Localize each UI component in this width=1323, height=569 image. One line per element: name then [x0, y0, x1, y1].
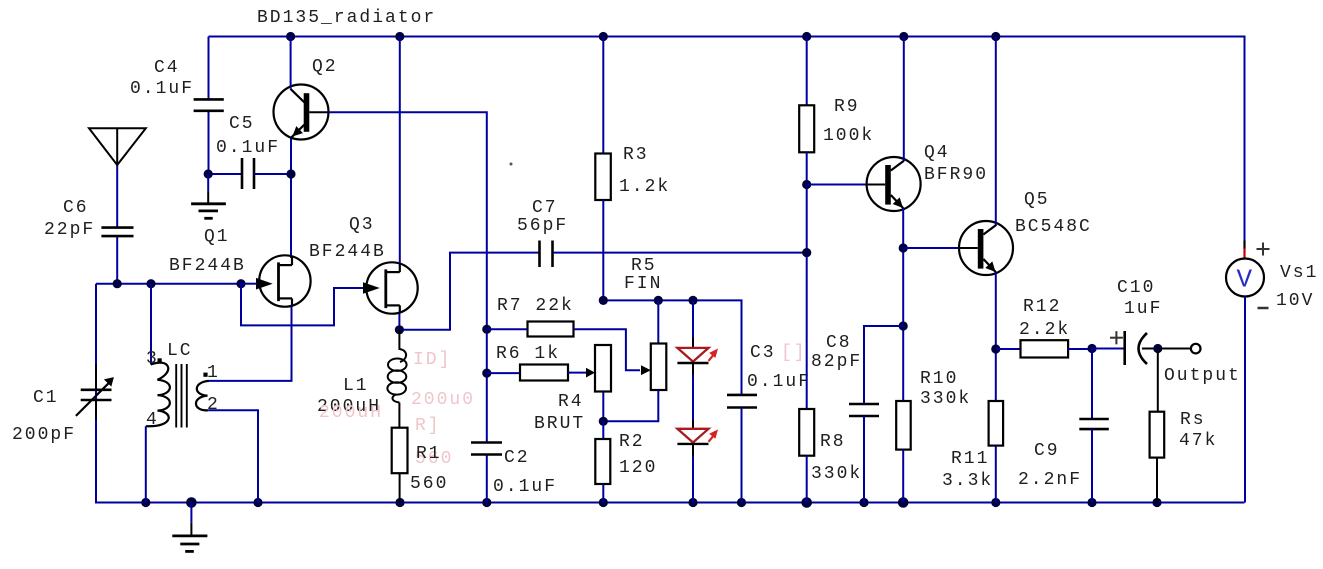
svg-text:3.3k: 3.3k — [942, 471, 993, 491]
svg-text:4: 4 — [146, 410, 159, 430]
capacitor C3 — [727, 395, 757, 503]
label Rs value — [1179, 410, 1217, 451]
stray speck — [510, 163, 513, 166]
label Q2 — [312, 57, 338, 77]
svg-text:C3: C3 — [750, 343, 776, 363]
voltage source Vs1 — [1226, 241, 1270, 503]
wire VCC top rail — [209, 37, 1245, 241]
label R4 BRUT — [534, 392, 585, 434]
svg-text:R8: R8 — [820, 432, 846, 452]
svg-text:200pF: 200pF — [12, 425, 76, 445]
node antenna net dots — [113, 279, 246, 288]
label R6 value — [496, 344, 560, 364]
svg-text:100k: 100k — [823, 126, 874, 146]
label R11 value — [942, 449, 993, 491]
transformer LC — [146, 284, 209, 503]
svg-text:Q4: Q4 — [924, 143, 950, 163]
resistor R7 — [487, 322, 640, 371]
node Q5 emitter dot — [991, 344, 1000, 353]
svg-text:R10: R10 — [920, 369, 958, 389]
label Output — [1164, 366, 1241, 386]
svg-text:C5: C5 — [229, 114, 255, 134]
wire Q3 source node to C7 — [399, 253, 539, 330]
node Q4 emitter dots — [899, 243, 908, 330]
svg-text:R9: R9 — [834, 97, 860, 117]
ghost label 200u0 — [411, 390, 475, 410]
svg-text:R5: R5 — [631, 256, 657, 276]
svg-text:56pF: 56pF — [517, 216, 568, 236]
label C9 value — [1018, 441, 1082, 490]
transistor Q3 — [363, 37, 418, 314]
wire LC pin4 lead — [145, 426, 147, 502]
svg-text:R6 1k: R6 1k — [496, 344, 560, 364]
LC core — [176, 364, 187, 428]
label R1 value — [410, 444, 448, 494]
svg-text:C2: C2 — [504, 448, 530, 468]
node Q2 base column dots — [482, 325, 491, 378]
svg-text:BF244B: BF244B — [169, 256, 246, 276]
label R5 FIN — [624, 256, 662, 294]
capacitor C5 — [242, 158, 254, 189]
wire LC pin2 to ground — [208, 410, 258, 502]
svg-text:Q5: Q5 — [1024, 190, 1050, 210]
svg-text:C6: C6 — [63, 198, 89, 218]
wire LC pin1 to Q1 source — [209, 307, 292, 381]
label C2 value — [493, 448, 557, 497]
pin 2 label — [207, 395, 220, 415]
svg-text:330k: 330k — [811, 464, 862, 484]
label R8 value — [811, 432, 862, 484]
svg-text:R12: R12 — [1023, 297, 1061, 317]
label R9 value — [823, 97, 874, 146]
svg-text:2: 2 — [207, 395, 220, 415]
svg-text:BFR90: BFR90 — [924, 165, 988, 185]
wire FIN bus — [603, 300, 741, 395]
label Q3 — [309, 215, 386, 262]
svg-text:R]: R] — [415, 416, 441, 436]
node C5 left dot — [204, 169, 213, 178]
svg-text:560: 560 — [410, 474, 448, 494]
node FIN bus dots — [599, 296, 698, 305]
output terminal — [1158, 344, 1201, 354]
svg-text:2.2nF: 2.2nF — [1018, 470, 1082, 490]
svg-text:R11: R11 — [951, 449, 989, 469]
svg-text:330k: 330k — [920, 389, 971, 409]
resistor R3 — [595, 37, 611, 301]
svg-text:FIN: FIN — [624, 274, 662, 294]
LED D1 — [677, 348, 718, 363]
svg-text:0.1uF: 0.1uF — [216, 138, 280, 158]
svg-text:22pF: 22pF — [44, 220, 95, 240]
ghost label ID] — [413, 350, 451, 370]
label R7 value — [497, 296, 574, 316]
node R9 column dots — [802, 180, 811, 257]
label C6 value — [44, 198, 95, 240]
node R2 top junction — [599, 417, 608, 426]
capacitor C2 — [471, 443, 502, 455]
svg-text:C10: C10 — [1117, 278, 1155, 298]
label L1 value — [317, 376, 381, 417]
ground (bottom center) — [172, 503, 207, 552]
capacitor C1 (variable) — [76, 364, 114, 420]
svg-text:1.2k: 1.2k — [619, 177, 670, 197]
wire antenna input net — [96, 165, 241, 284]
wire Q5 emitter column — [995, 273, 997, 402]
svg-text:1uF: 1uF — [1124, 299, 1162, 319]
node R12 right junction — [1087, 344, 1096, 353]
node C10 right junction — [1153, 344, 1162, 353]
svg-text:200uH: 200uH — [319, 403, 383, 423]
resistor R12 — [996, 340, 1092, 357]
wire ground bottom rail — [96, 284, 1245, 503]
svg-text:10V: 10V — [1276, 291, 1314, 311]
node C5 right dot — [286, 169, 295, 178]
resistor R11 — [989, 401, 1004, 503]
wire C7 right to R9 column — [553, 252, 807, 254]
node ground rail junction dots — [141, 497, 1161, 508]
ghost label 560 — [415, 449, 453, 469]
svg-text:C1: C1 — [33, 388, 59, 408]
capacitor C7 — [540, 241, 553, 268]
svg-text:R3: R3 — [623, 145, 649, 165]
resistor R9 — [799, 37, 814, 410]
capacitor C4 — [194, 99, 224, 110]
ghost label 200uH — [319, 403, 383, 423]
pin 1 label — [207, 363, 220, 383]
resistor R1 — [392, 428, 408, 503]
wire Q1 gate to Q3 gate — [241, 284, 364, 326]
capacitor C10 (polarized) — [1092, 331, 1158, 365]
transistor Q2 — [274, 37, 329, 140]
svg-text:BD135_radiator: BD135_radiator — [257, 8, 436, 28]
svg-text:200u0: 200u0 — [411, 390, 475, 410]
resistor R2 — [595, 421, 610, 502]
svg-text:C8: C8 — [826, 333, 852, 353]
transistor Q5 — [903, 37, 1013, 276]
resistor R8 — [799, 409, 814, 503]
LC phase dots — [158, 358, 162, 362]
svg-text:R1: R1 — [416, 444, 442, 464]
svg-text:BF244B: BF244B — [309, 242, 386, 262]
svg-text:C7: C7 — [532, 198, 558, 218]
label LC — [167, 341, 193, 361]
svg-text:120: 120 — [619, 458, 657, 478]
transistor Q1 — [241, 255, 311, 306]
resistor Rs — [1150, 349, 1165, 503]
ground (under C5) — [191, 174, 226, 218]
svg-text:0.1uF: 0.1uF — [130, 79, 194, 99]
label R3 value — [619, 145, 670, 197]
resistor R6 — [487, 365, 586, 381]
label C4 value — [130, 58, 194, 99]
svg-text:0.1uF: 0.1uF — [747, 372, 811, 392]
svg-text:Q1: Q1 — [204, 227, 230, 247]
svg-text:C9: C9 — [1034, 441, 1060, 461]
svg-text:Output: Output — [1164, 366, 1241, 386]
label R10 value — [920, 369, 971, 409]
wire LC pin3 lead — [150, 284, 152, 365]
LED D2 — [677, 429, 718, 444]
capacitor C6 — [101, 228, 133, 237]
label C10 value — [1117, 278, 1162, 319]
svg-text:R7 22k: R7 22k — [497, 296, 574, 316]
svg-text:Q3: Q3 — [349, 215, 375, 235]
svg-text:47k: 47k — [1179, 431, 1217, 451]
inductor L1 — [387, 330, 406, 428]
label C8 value — [811, 333, 862, 372]
svg-text:2.2k: 2.2k — [1019, 320, 1070, 340]
node Q3 source dot — [395, 325, 404, 334]
label Q5 — [1015, 190, 1092, 237]
LC primary winding — [146, 363, 170, 427]
potentiometer R4 — [586, 345, 611, 421]
svg-text:C4: C4 — [154, 58, 180, 78]
wire Q4 emitter column — [902, 209, 904, 402]
svg-text:R2: R2 — [619, 432, 645, 452]
label Q1 — [169, 227, 246, 276]
capacitor C9 — [1079, 349, 1109, 503]
svg-text:Q2: Q2 — [312, 57, 338, 77]
svg-text:V: V — [1237, 265, 1253, 295]
potentiometer R5 — [603, 300, 666, 421]
label C7 value — [517, 198, 568, 236]
svg-text:LC: LC — [167, 341, 193, 361]
wire Q2 base to R7/R6/C2 column — [329, 112, 487, 502]
pin 4 label — [146, 410, 159, 430]
wire C4/C5 left node — [209, 37, 243, 175]
label BD135_radiator — [257, 8, 436, 28]
svg-text:82pF: 82pF — [811, 352, 862, 372]
svg-text:R4: R4 — [558, 392, 584, 412]
capacitor C8 — [849, 326, 903, 503]
label C1 value — [12, 388, 76, 445]
svg-text:BC548C: BC548C — [1015, 217, 1092, 237]
wire LED column — [692, 300, 694, 502]
svg-text:[]: [] — [781, 343, 807, 363]
antenna — [89, 128, 146, 165]
svg-text:Rs: Rs — [1180, 410, 1206, 430]
svg-text:L1: L1 — [343, 376, 369, 396]
pin 3 label — [146, 349, 159, 369]
svg-text:ID]: ID] — [413, 350, 451, 370]
label R12 value — [1019, 297, 1070, 340]
ghost label after C3 — [781, 343, 807, 363]
transistor Q4 — [807, 37, 921, 212]
label Q4 — [924, 143, 988, 185]
svg-text:0.1uF: 0.1uF — [493, 477, 557, 497]
svg-text:BRUT: BRUT — [534, 414, 585, 434]
label R2 value — [619, 432, 657, 478]
label C5 value — [216, 114, 280, 158]
label Vs1 value — [1276, 263, 1318, 311]
wire C5 right / Q2 emitter / Q1 drain node — [254, 138, 291, 258]
node VCC rail junction dots — [286, 32, 1000, 41]
svg-text:3: 3 — [146, 349, 159, 369]
svg-text:Vs1: Vs1 — [1280, 263, 1318, 283]
label C3 value — [747, 343, 811, 392]
resistor R10 — [896, 401, 911, 503]
LC secondary winding — [196, 381, 209, 410]
ghost label R] — [415, 416, 441, 436]
